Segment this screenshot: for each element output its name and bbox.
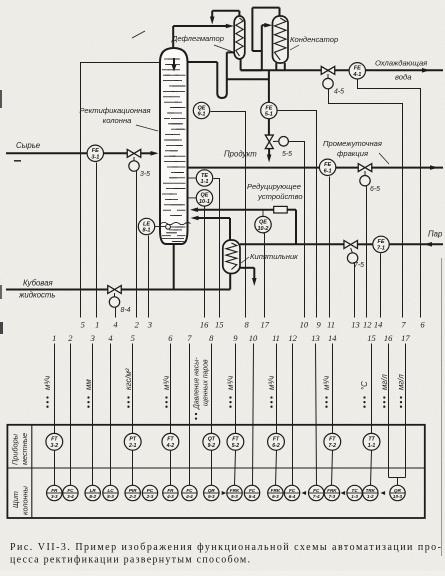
- wire dephlegmator top vent with down arrow: [210, 11, 240, 25]
- panel instrument QR 10-3: [390, 485, 405, 500]
- wire reboiler condensate out: [240, 268, 257, 286]
- wire vapor line column to dephlegmator: [173, 24, 234, 48]
- valve 4-5 on cooling water: [321, 66, 344, 95]
- svg-text:TE: TE: [201, 173, 208, 179]
- svg-text:16: 16: [200, 320, 209, 330]
- svg-text:цесса ректификации развернутым: цесса ректификации развернутым способом.: [10, 555, 250, 566]
- svg-text:QE: QE: [259, 219, 267, 225]
- quality sensor QE 10-2: [255, 211, 271, 233]
- reboiler vessel: [223, 240, 240, 274]
- svg-text:2-3: 2-3: [146, 494, 154, 499]
- svg-text:Приборы: Приборы: [11, 433, 20, 465]
- wire steam into reboiler: [240, 243, 296, 245]
- label bottoms liquid: [18, 279, 56, 300]
- svg-text:Промежуточная: Промежуточная: [323, 139, 382, 148]
- measurement unit labels: [43, 368, 406, 408]
- svg-text:мг/л: мг/л: [397, 374, 406, 390]
- svg-text:LC: LC: [107, 488, 114, 493]
- svg-text:1: 1: [52, 333, 56, 343]
- svg-text:8-4: 8-4: [121, 307, 131, 314]
- panel instrument FC 3-4: [63, 485, 78, 500]
- svg-text:жидкость: жидкость: [18, 291, 56, 300]
- caption line 2: [10, 555, 250, 566]
- svg-text:6-2: 6-2: [272, 443, 280, 449]
- svg-text:Кубовая: Кубовая: [23, 279, 54, 288]
- svg-text:10-1: 10-1: [199, 199, 210, 205]
- signal line 1 lower run: [54, 344, 56, 486]
- svg-text:Давление насы-: Давление насы-: [194, 357, 201, 410]
- svg-text:мм: мм: [84, 379, 93, 390]
- svg-text:4-5: 4-5: [334, 89, 344, 96]
- svg-text:9-1: 9-1: [198, 112, 206, 118]
- wire steam line: [296, 242, 443, 247]
- svg-text:колонна: колонна: [103, 116, 132, 125]
- svg-text:3-4: 3-4: [67, 494, 74, 499]
- signal line 15 from TE 1-1: [214, 179, 220, 318]
- svg-text:6-3: 6-3: [272, 494, 279, 499]
- row label local instruments: [11, 433, 30, 465]
- temperature sensor TE 1-1: [188, 170, 213, 186]
- svg-text:9: 9: [316, 320, 321, 330]
- panel instrument FC 7-4: [309, 485, 324, 500]
- signal line 16 lower run: [388, 344, 390, 478]
- panel instrument TC 1-3: [347, 485, 362, 500]
- svg-text:3: 3: [90, 333, 95, 343]
- svg-text:5-5: 5-5: [282, 151, 292, 158]
- svg-text:Щит: Щит: [11, 491, 20, 508]
- flow sensor FE 6-1: [319, 159, 335, 175]
- node numbers upper row: [81, 320, 426, 330]
- svg-text:14: 14: [328, 333, 337, 343]
- signal line 15 lower run: [371, 344, 372, 486]
- signal line 17 lower run: [405, 344, 407, 478]
- wire bottoms liquid line: [6, 244, 230, 290]
- svg-text:мг/л: мг/л: [380, 374, 389, 390]
- svg-text:Кипятильник: Кипятильник: [250, 252, 298, 261]
- svg-text:FRK: FRK: [230, 488, 240, 493]
- local instrument PT 2-1: [124, 433, 141, 450]
- label reboiler: [241, 252, 298, 263]
- selector junction lines 16 17: [389, 478, 406, 486]
- svg-text:TT: TT: [368, 437, 375, 443]
- svg-text:FE: FE: [265, 105, 272, 111]
- signal line 12 lower run: [292, 344, 294, 486]
- signal line 5 lower run: [132, 344, 134, 486]
- svg-text:FR: FR: [51, 488, 58, 493]
- svg-text:2: 2: [68, 333, 73, 343]
- signal line 10 from valve 5-5: [289, 142, 305, 318]
- flow sensor FE 7-1: [373, 236, 389, 252]
- dephlegmator vessel: [234, 16, 245, 59]
- wire condenser top loop: [252, 8, 279, 51]
- svg-text:7-1: 7-1: [377, 246, 385, 252]
- label intermediate fraction: [323, 139, 389, 164]
- level sensor LE 8-1: [138, 218, 165, 234]
- condenser vessel: [273, 16, 289, 63]
- svg-text:5-4: 5-4: [249, 494, 256, 499]
- signal line 13 from valve 7-5: [354, 263, 355, 318]
- svg-text:7-2: 7-2: [329, 443, 337, 449]
- signal line 3 lower run: [92, 344, 94, 486]
- svg-text:7: 7: [187, 333, 192, 343]
- svg-text:3-3: 3-3: [51, 494, 58, 499]
- svg-text:TRK: TRK: [366, 488, 376, 493]
- svg-text:FC: FC: [313, 488, 320, 493]
- quality sensor QE 10-1: [188, 190, 213, 206]
- svg-text:кгс/м²: кгс/м²: [124, 368, 133, 390]
- svg-text:Сырье: Сырье: [16, 141, 41, 150]
- svg-text:3-2: 3-2: [51, 443, 59, 449]
- svg-text:LE: LE: [143, 221, 150, 227]
- panel instrument FC 6-4: [284, 485, 299, 500]
- svg-text:Продукт: Продукт: [224, 150, 257, 159]
- label condenser: [290, 35, 338, 50]
- svg-text:1-1: 1-1: [201, 179, 209, 185]
- panel instrument TRK 1-2: [363, 485, 378, 500]
- svg-text:6-5: 6-5: [370, 186, 380, 193]
- signal line 5 pressure tap: [81, 63, 161, 318]
- svg-text:местные: местные: [20, 433, 29, 465]
- svg-text:12: 12: [288, 333, 297, 343]
- svg-text:8: 8: [209, 333, 214, 343]
- svg-text:11: 11: [327, 320, 335, 330]
- flow sensor FE 4-1: [349, 63, 365, 79]
- signal line 9 from FE 5-1: [278, 111, 317, 318]
- valve 5-5 on product: [265, 135, 292, 158]
- panel instrument PIR 2-2: [125, 485, 140, 500]
- svg-text:5-3: 5-3: [231, 494, 238, 499]
- svg-text:QE: QE: [198, 105, 206, 111]
- svg-text:FR: FR: [167, 488, 174, 493]
- signal line 9 lower run: [235, 344, 236, 486]
- svg-text:13: 13: [351, 320, 360, 330]
- wire steam riser to reducing line: [287, 210, 296, 245]
- rectification column vessel: [160, 48, 191, 244]
- svg-text:Дефлегматор: Дефлегматор: [171, 34, 224, 43]
- wire reboiler vapor return to column: [191, 216, 231, 240]
- label feed: [16, 141, 41, 150]
- svg-text:фракция: фракция: [337, 149, 368, 158]
- signal line 14 lower run: [332, 344, 333, 486]
- column level nozzle: [166, 224, 171, 229]
- svg-text:м³/ч: м³/ч: [162, 376, 171, 390]
- signal line 8 from QE 9-1: [211, 112, 246, 318]
- svg-text:4-4: 4-4: [185, 494, 193, 499]
- svg-text:PT: PT: [129, 437, 136, 443]
- signal line 7 lower run: [189, 344, 191, 486]
- svg-text:FE: FE: [324, 162, 331, 168]
- local instrument TT 1-1: [363, 433, 380, 450]
- signal line 3 from LE 8-1: [148, 236, 150, 318]
- svg-text:4-1: 4-1: [352, 72, 361, 78]
- svg-text:Редуцирующее: Редуцирующее: [247, 182, 301, 191]
- svg-text:FT: FT: [329, 437, 336, 443]
- signal line 2 lower run: [70, 344, 72, 486]
- signal line 8 lower run: [211, 344, 213, 486]
- svg-text:8-3: 8-3: [107, 494, 114, 499]
- svg-text:10: 10: [249, 333, 258, 343]
- svg-text:5-1: 5-1: [265, 112, 273, 118]
- svg-text:PC: PC: [147, 488, 154, 493]
- reducing device box: [274, 206, 288, 213]
- svg-text:FE: FE: [377, 239, 384, 245]
- wire reboiler bottom feed: [229, 274, 231, 290]
- svg-text:Рис. VII-3. Пример изображения: Рис. VII-3. Пример изображения функциона…: [10, 542, 441, 553]
- svg-text:м³/ч: м³/ч: [267, 376, 276, 390]
- panel instrument FC 4-4: [182, 485, 197, 500]
- wire condensate tee to seal: [227, 78, 269, 80]
- svg-text:LR: LR: [90, 488, 97, 493]
- wire reflux seal loop: [188, 52, 235, 98]
- quality sensor QE 9-1: [193, 102, 209, 118]
- svg-text:FC: FC: [67, 488, 74, 493]
- local instrument FT 5-2: [227, 433, 244, 450]
- svg-text:9: 9: [233, 333, 238, 343]
- svg-text:щенных паров: щенных паров: [203, 359, 210, 406]
- svg-text:2: 2: [135, 320, 140, 330]
- local instrument QT 9-2: [203, 433, 220, 450]
- panel instrument FRK 5-3: [227, 485, 242, 500]
- panel instrument LR 8-2: [85, 485, 100, 500]
- svg-text:14: 14: [374, 320, 383, 330]
- label product: [224, 150, 257, 159]
- svg-text:FT: FT: [273, 437, 280, 443]
- svg-text:3-1: 3-1: [91, 155, 99, 161]
- signal line 6 lower run: [170, 344, 172, 486]
- signal line 10 lower run: [253, 344, 254, 486]
- svg-text:16: 16: [384, 333, 393, 343]
- panel instrument FRK 6-3: [268, 485, 283, 500]
- wire product outflow arrow: [267, 149, 272, 163]
- scan page edge right: [441, 258, 443, 556]
- svg-text:5: 5: [131, 333, 135, 343]
- svg-text:FC: FC: [289, 488, 296, 493]
- svg-text:2-2: 2-2: [128, 494, 136, 499]
- svg-text:6-4: 6-4: [289, 494, 296, 499]
- reflux return arrow inside column: [172, 58, 177, 72]
- svg-text:5: 5: [81, 320, 85, 330]
- svg-text:PIR: PIR: [129, 488, 137, 493]
- svg-text:1: 1: [95, 320, 99, 330]
- valve 7-5 on steam: [344, 241, 364, 270]
- svg-text:15: 15: [215, 320, 224, 330]
- panel instrument FC 5-4: [244, 485, 259, 500]
- svg-text:Конденсатор: Конденсатор: [290, 35, 338, 44]
- valve 6-5 on intermediate fraction: [358, 164, 380, 193]
- svg-text:13: 13: [311, 333, 320, 343]
- svg-text:QE: QE: [201, 193, 209, 199]
- signal line 7 from valve 4-5: [329, 89, 403, 318]
- svg-text:TC: TC: [352, 488, 359, 493]
- svg-text:колонны: колонны: [21, 485, 30, 515]
- svg-text:7-3: 7-3: [329, 494, 336, 499]
- wire cooling water manifold line: [241, 68, 443, 73]
- local instrument FT 7-2: [324, 433, 341, 450]
- svg-text:2-1: 2-1: [128, 443, 137, 449]
- wire open steam into column: [190, 207, 274, 212]
- svg-text:вода: вода: [395, 73, 411, 82]
- svg-text:1-2: 1-2: [367, 494, 374, 499]
- svg-text:15: 15: [367, 333, 376, 343]
- wire intermediate fraction line: [188, 165, 444, 170]
- svg-text:FT: FT: [232, 437, 239, 443]
- panel instrument PC 2-3: [142, 485, 157, 500]
- svg-text:4-3: 4-3: [166, 494, 174, 499]
- signal line 16 from QE 10-1: [204, 207, 206, 318]
- svg-text:12: 12: [363, 320, 372, 330]
- svg-text:°С: °С: [360, 381, 369, 390]
- svg-text:FRK: FRK: [271, 488, 281, 493]
- svg-text:6-1: 6-1: [324, 169, 332, 175]
- signal line 13 lower run: [316, 344, 317, 486]
- wire product line: [268, 70, 270, 135]
- arrows between panel instruments: [222, 491, 385, 495]
- svg-text:м³/ч: м³/ч: [43, 376, 52, 390]
- svg-text:Пар: Пар: [428, 230, 443, 239]
- signal line 11 lower run: [276, 344, 277, 486]
- valve 3-5 on feed: [127, 149, 150, 178]
- valve 8-4 on bottoms: [108, 286, 131, 315]
- svg-text:10: 10: [300, 320, 309, 330]
- caption line 1: [10, 542, 441, 553]
- row label column panel: [11, 485, 30, 515]
- local instrument FT 6-2: [268, 433, 285, 450]
- svg-text:QR: QR: [394, 488, 402, 493]
- svg-text:FT: FT: [167, 437, 174, 443]
- panel instrument QR 9-3: [204, 485, 219, 500]
- signal line 2 to valve 3-5: [136, 171, 138, 318]
- local instrument FT 3-2: [46, 433, 63, 450]
- label rectification column: [79, 31, 158, 131]
- panel instrument LC 8-3: [103, 485, 118, 500]
- svg-text:QT: QT: [208, 437, 216, 443]
- label reducing device: [247, 182, 303, 201]
- panel instrument FR 3-3: [47, 485, 62, 500]
- local instrument FT 4-2: [162, 433, 179, 450]
- svg-text:10-3: 10-3: [393, 494, 403, 499]
- label saturated vapour pressure: [194, 357, 210, 420]
- svg-text:17: 17: [401, 333, 410, 343]
- svg-text:1-1: 1-1: [368, 443, 376, 449]
- svg-text:8: 8: [244, 320, 249, 330]
- wire condenser bottom legs: [276, 63, 285, 70]
- svg-text:FRK: FRK: [327, 488, 337, 493]
- signal line 4 lower run: [110, 344, 112, 486]
- svg-text:9-3: 9-3: [208, 494, 215, 499]
- node numbers lower row: [52, 333, 410, 343]
- svg-text:м³/ч: м³/ч: [322, 376, 331, 390]
- panel instrument FRK 7-3: [324, 485, 339, 500]
- svg-text:FE: FE: [92, 148, 99, 154]
- svg-text:6: 6: [168, 333, 173, 343]
- signal line 14 from FE 7-1: [380, 254, 382, 318]
- svg-text:8-1: 8-1: [143, 228, 151, 234]
- svg-text:FC: FC: [186, 488, 193, 493]
- wire dephlegmator bottom to riser: [241, 25, 262, 70]
- flow sensor FE 5-1: [261, 102, 277, 118]
- label steam: [428, 230, 443, 239]
- svg-text:8-2: 8-2: [89, 494, 96, 499]
- signal line 4 to valve 8-4: [115, 307, 117, 318]
- svg-text:9-2: 9-2: [208, 443, 216, 449]
- svg-text:Охлаждающая: Охлаждающая: [375, 59, 427, 68]
- svg-text:3: 3: [147, 320, 152, 330]
- svg-text:QR: QR: [208, 488, 216, 493]
- svg-text:FC: FC: [249, 488, 256, 493]
- svg-text:м³/ч: м³/ч: [226, 376, 235, 390]
- svg-text:1-3: 1-3: [351, 494, 358, 499]
- svg-text:7-4: 7-4: [313, 494, 320, 499]
- panel instrument FR 4-3: [163, 485, 178, 500]
- wire vapor feed into condenser: [262, 23, 273, 28]
- signal line 6 from FE 4-1: [358, 80, 421, 318]
- svg-text:FE: FE: [354, 66, 361, 72]
- signal line 12 from valve 6-5: [366, 186, 368, 318]
- svg-text:FT: FT: [51, 437, 58, 443]
- svg-text:Ректификационная: Ректификационная: [79, 106, 150, 115]
- wire feed line: [6, 151, 159, 156]
- svg-text:11: 11: [272, 333, 280, 343]
- svg-text:4-2: 4-2: [166, 443, 175, 449]
- svg-text:3-5: 3-5: [140, 171, 150, 178]
- label cooling water: [375, 59, 427, 82]
- svg-text:17: 17: [261, 320, 270, 330]
- svg-text:устройство: устройство: [257, 192, 303, 201]
- instrument table frame: [7, 425, 424, 518]
- svg-text:10-2: 10-2: [257, 226, 268, 232]
- svg-text:7-5: 7-5: [354, 262, 364, 269]
- flow sensor FE 3-1: [87, 145, 103, 161]
- label dephlegmator: [171, 34, 233, 52]
- scan artifacts: [0, 90, 21, 334]
- signal line 17 from QE 10-2: [264, 234, 265, 318]
- signal line 1 from FE 3-1: [96, 163, 98, 318]
- svg-text:5-2: 5-2: [232, 443, 240, 449]
- signal line 11 from FE 6-1: [329, 177, 331, 318]
